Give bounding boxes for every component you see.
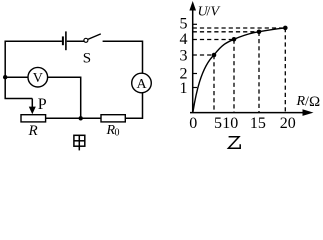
svg-text:3: 3 (180, 48, 188, 65)
junction node dot (V tap to bottom wire) (79, 116, 83, 120)
voltmeter V1 circle (28, 67, 48, 87)
svg-text:P: P (38, 96, 47, 113)
dashed horizontal U=4.85 guide (193, 27, 286, 29)
svg-text:Ω: Ω (309, 94, 320, 110)
svg-text:0: 0 (115, 128, 120, 139)
battery B1 long plate (positive) (65, 31, 67, 50)
dashed vertical R=20 guide (284, 28, 286, 112)
svg-text:15: 15 (250, 115, 266, 132)
wire: ammeter bottom to bottom-right corner to R0 right terminal (125, 93, 142, 119)
data point (10,4) (232, 37, 237, 42)
U-R curve (193, 28, 285, 112)
dashed horizontal U=4 guide (193, 39, 234, 41)
svg-text:0: 0 (189, 115, 197, 132)
svg-text:5: 5 (180, 16, 188, 33)
dashed horizontal U=4.6 guide (193, 31, 259, 33)
wire: left node to voltmeter (5, 76, 28, 78)
svg-text:V: V (33, 71, 43, 86)
svg-text:R: R (296, 94, 306, 109)
graph y-axis U/V (192, 6, 194, 113)
dashed vertical R=15 guide (258, 32, 260, 112)
y tick 1 (193, 87, 197, 89)
node dot on left wire (voltmeter tap) (3, 75, 7, 79)
switch S pivot circle (84, 38, 88, 42)
wire: switch to top-right corner down to ammeter top (103, 41, 143, 73)
wire: battery negative to top-left corner, down left side, to slider feed (5, 41, 62, 98)
switch S blade (open) (88, 34, 101, 40)
slider P arrow shaft (31, 99, 33, 108)
svg-text:4: 4 (180, 31, 188, 48)
rheostat R box (21, 115, 46, 122)
svg-text:1: 1 (180, 80, 188, 97)
dashed vertical R=5 guide (213, 55, 215, 112)
wire: battery positive to switch pivot (67, 40, 84, 42)
slider P arrowhead (29, 107, 36, 115)
svg-text:20: 20 (280, 115, 296, 132)
svg-text:S: S (83, 50, 91, 66)
data point (20,4.85) (283, 26, 288, 31)
x-axis arrowhead (303, 109, 314, 116)
wire: R0 left terminal to junction to rheostat right terminal (46, 117, 101, 119)
svg-text:A: A (136, 77, 147, 92)
data point (15,4.6) (257, 30, 262, 35)
graph x-axis R/Ohm (190, 112, 305, 114)
wire: voltmeter right to junction above R0 (48, 77, 81, 118)
resistor R0 box (101, 115, 125, 122)
y-axis arrowhead (189, 1, 196, 11)
svg-text:V: V (211, 5, 221, 20)
ammeter A1 circle (132, 73, 152, 93)
svg-text:R: R (28, 123, 38, 139)
label yi (figure 2) drawn glyph (228, 137, 240, 149)
battery B1 short thick plate (negative) (62, 36, 64, 45)
dashed horizontal U=3 guide (193, 54, 214, 56)
y tick 2 (193, 73, 197, 75)
dashed vertical R=10 guide (233, 40, 235, 113)
y tick 5 (193, 23, 197, 25)
svg-text:10: 10 (222, 115, 238, 132)
label jia (figure 1) drawn glyph (74, 135, 85, 150)
svg-text:5: 5 (214, 115, 222, 132)
data point (5,3) (212, 53, 217, 58)
